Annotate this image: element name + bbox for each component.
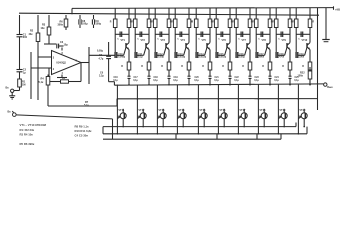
svg-text:Вых.: Вых.	[327, 86, 333, 89]
svg-text:VT9: VT9	[282, 39, 287, 42]
svg-text:0,015µ: 0,015µ	[219, 57, 227, 59]
svg-text:R5 R6 390к: R5 R6 390к	[20, 142, 35, 146]
svg-text:VT1: VT1	[121, 39, 126, 42]
svg-text:VT10: VT10	[302, 39, 308, 42]
svg-text:4,7µ: 4,7µ	[99, 57, 104, 60]
svg-text:0,01µ: 0,01µ	[239, 57, 245, 59]
svg-text:R8 R9 1,1к: R8 R9 1,1к	[75, 124, 90, 128]
svg-text:R1 = R2 23к: R1 = R2 23к	[20, 128, 35, 132]
svg-text:VT19: VT19	[279, 109, 286, 112]
svg-text:VT16: VT16	[219, 109, 226, 112]
svg-text:VT3: VT3	[161, 39, 166, 42]
svg-text:VT20: VT20	[299, 109, 306, 112]
svg-text:C18: C18	[154, 77, 159, 79]
svg-text:0,1µ: 0,1µ	[254, 80, 259, 82]
svg-text:VT13: VT13	[158, 109, 165, 112]
svg-text:C24: C24	[275, 76, 280, 79]
svg-text:0,05µ: 0,05µ	[97, 50, 104, 53]
svg-text:C20: C20	[195, 77, 200, 79]
svg-text:300: 300	[23, 36, 28, 39]
svg-text:10µ: 10µ	[64, 44, 69, 47]
svg-text:0,1µ: 0,1µ	[274, 80, 279, 82]
svg-text:VT4: VT4	[181, 39, 186, 42]
svg-text:VT7: VT7	[242, 39, 247, 42]
svg-text:1M: 1M	[22, 83, 25, 86]
svg-text:0,068µ: 0,068µ	[118, 57, 126, 59]
svg-text:C17: C17	[134, 77, 139, 79]
svg-text:VT17: VT17	[239, 109, 246, 112]
svg-text:300к: 300к	[58, 24, 64, 27]
svg-text:VT12: VT12	[138, 109, 145, 112]
svg-text:C19: C19	[174, 77, 179, 79]
svg-text:6800: 6800	[259, 57, 265, 59]
svg-text:К140УД1: К140УД1	[57, 62, 67, 65]
svg-text:VT11: VT11	[118, 109, 124, 112]
svg-text:2,2µ: 2,2µ	[99, 74, 104, 77]
svg-text:0,1µ: 0,1µ	[138, 57, 143, 59]
svg-text:100µ: 100µ	[82, 23, 88, 26]
svg-text:4700: 4700	[279, 56, 285, 59]
svg-text:3300: 3300	[299, 57, 305, 59]
svg-text:100µ: 100µ	[96, 23, 102, 26]
svg-text:VT15: VT15	[199, 109, 206, 112]
svg-text:5,1к: 5,1к	[84, 104, 89, 107]
svg-text:0,1µ: 0,1µ	[214, 80, 219, 82]
svg-text:C4 C5 30п: C4 C5 30п	[75, 134, 89, 138]
svg-text:+9 В: +9 В	[335, 7, 340, 11]
svg-text:VT8: VT8	[262, 39, 267, 42]
svg-text:VT18: VT18	[259, 109, 266, 112]
svg-text:R10 R11 6,8к: R10 R11 6,8к	[75, 129, 93, 133]
svg-text:VT1 – VT10 КП103М: VT1 – VT10 КП103М	[20, 123, 47, 127]
svg-text:C22: C22	[235, 77, 240, 79]
svg-text:0,033µ: 0,033µ	[178, 57, 186, 59]
svg-text:0,1µ: 0,1µ	[133, 80, 138, 82]
svg-text:R3 R4 10к: R3 R4 10к	[20, 133, 34, 137]
svg-text:5,1к: 5,1к	[39, 81, 44, 84]
svg-text:VT5: VT5	[202, 39, 207, 42]
svg-text:C16: C16	[114, 77, 119, 79]
svg-text:0,05µ: 0,05µ	[158, 57, 164, 59]
svg-text:0,1µ: 0,1µ	[173, 80, 178, 82]
svg-text:0,022µ: 0,022µ	[199, 57, 207, 59]
svg-text:VT6: VT6	[222, 39, 227, 42]
svg-text:0,1µ: 0,1µ	[194, 80, 199, 82]
svg-text:0,1µ: 0,1µ	[153, 80, 158, 82]
svg-text:C21: C21	[215, 77, 220, 79]
svg-text:0,1µ: 0,1µ	[113, 80, 118, 82]
svg-text:C23: C23	[255, 77, 260, 79]
svg-text:0,1µ: 0,1µ	[234, 80, 239, 82]
svg-text:VT2: VT2	[141, 39, 146, 42]
svg-text:0,1µ: 0,1µ	[294, 80, 299, 82]
svg-text:VT14: VT14	[178, 109, 185, 112]
svg-text:100к: 100к	[298, 75, 304, 78]
